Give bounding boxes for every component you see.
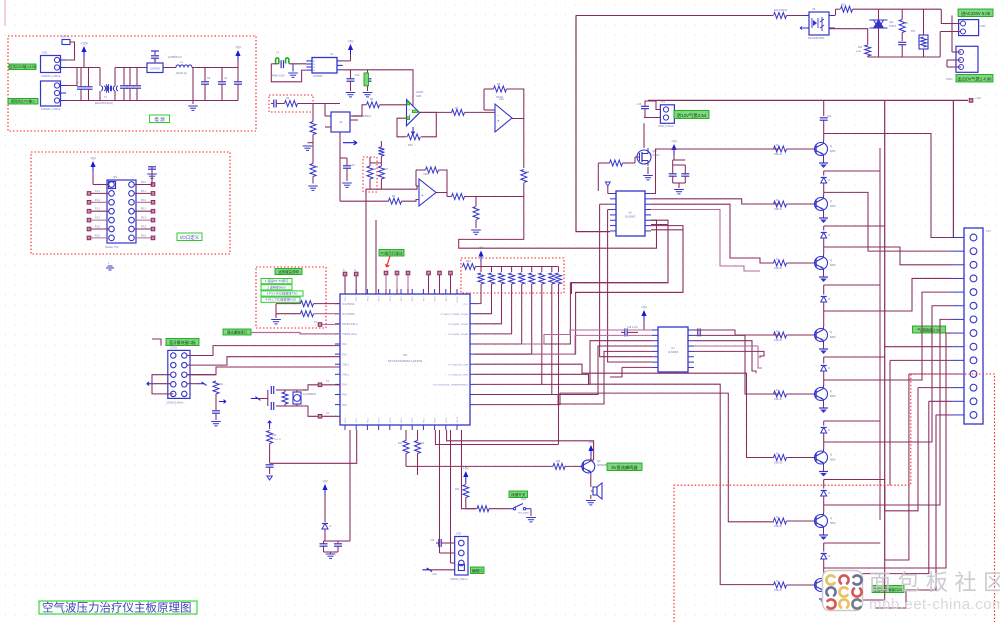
svg-text:P0.9: P0.9 xyxy=(446,296,448,301)
svg-text:R16: R16 xyxy=(372,169,377,171)
svg-text:SW1: SW1 xyxy=(521,498,527,501)
svg-text:气阀插座2.54: 气阀插座2.54 xyxy=(917,327,942,333)
svg-text:P2.6/PWM4: P2.6/PWM4 xyxy=(342,304,355,306)
svg-text:5V直流蜂鸣器: 5V直流蜂鸣器 xyxy=(611,464,638,471)
svg-text:CN6: CN6 xyxy=(980,25,985,28)
svg-text:CON2AC_5.08mm: CON2AC_5.08mm xyxy=(41,75,61,78)
svg-text:P3.5: P3.5 xyxy=(342,395,347,397)
svg-text:Q: Q xyxy=(830,199,832,203)
svg-text:R: R xyxy=(776,143,778,147)
svg-text:P1.6: P1.6 xyxy=(95,234,101,237)
svg-text:R: R xyxy=(776,515,778,519)
svg-text:2SB-1k: 2SB-1k xyxy=(774,398,783,401)
svg-text:P0.0: P0.0 xyxy=(141,181,147,184)
svg-text:+: + xyxy=(497,119,500,124)
svg-text:R: R xyxy=(776,198,778,202)
svg-text:+5V: +5V xyxy=(432,572,437,576)
svg-text:8050: 8050 xyxy=(830,522,836,525)
svg-text:P0.6: P0.6 xyxy=(412,296,414,301)
svg-text:编程口: 编程口 xyxy=(472,568,483,573)
svg-text:P0.7: P0.7 xyxy=(423,296,425,301)
svg-text:P0.4: P0.4 xyxy=(390,296,392,301)
svg-text:2SB-1k: 2SB-1k xyxy=(774,208,783,211)
svg-text:R21: R21 xyxy=(904,23,909,25)
svg-text:CON4A_2.54mm: CON4A_2.54mm xyxy=(450,578,468,581)
svg-text:P0.5: P0.5 xyxy=(401,296,403,301)
svg-text:+: + xyxy=(421,193,424,198)
svg-text:2SB-1k: 2SB-1k xyxy=(774,589,783,592)
svg-text:8050: 8050 xyxy=(830,395,836,398)
svg-text:U3: U3 xyxy=(339,120,343,124)
svg-text:2SB-1k: 2SB-1k xyxy=(774,339,783,342)
svg-text:R: R xyxy=(776,388,778,392)
svg-text:P0.2: P0.2 xyxy=(367,296,369,301)
svg-text:+5V: +5V xyxy=(322,480,329,484)
svg-text:P4.0: P4.0 xyxy=(345,417,347,422)
svg-text:P3.2: P3.2 xyxy=(342,344,347,346)
svg-text:R12: R12 xyxy=(272,434,277,437)
svg-text:+5V: +5V xyxy=(478,246,485,250)
svg-text:P3.4: P3.4 xyxy=(342,385,347,387)
svg-text:按键开关: 按键开关 xyxy=(511,492,526,497)
svg-text:P4.8: P4.8 xyxy=(435,417,437,422)
svg-text:U7: U7 xyxy=(671,346,675,350)
svg-text:+12V F1: +12V F1 xyxy=(60,36,70,39)
svg-text:R13: R13 xyxy=(398,443,403,445)
svg-text:P0.5: P0.5 xyxy=(141,226,147,229)
svg-text:P1.1: P1.1 xyxy=(464,304,469,306)
svg-text:R16: R16 xyxy=(455,489,460,491)
svg-text:P0.8: P0.8 xyxy=(435,296,437,301)
svg-text:U2D: U2D xyxy=(423,172,428,176)
svg-text:P4.9: P4.9 xyxy=(446,417,448,422)
svg-text:+5V: +5V xyxy=(641,306,648,310)
svg-text:P1.6/SS0/SS_1/SW: P1.6/SS0/SS_1/SW xyxy=(449,375,469,377)
svg-text:CON10-2.54mm: CON10-2.54mm xyxy=(166,402,183,405)
svg-text:C12: C12 xyxy=(350,164,355,167)
svg-text:2SB-1k: 2SB-1k xyxy=(774,525,783,528)
svg-text:保险丝后 RV输入: 保险丝后 RV输入 xyxy=(11,99,36,104)
svg-text:D: D xyxy=(828,297,830,301)
svg-text:P4.1: P4.1 xyxy=(356,417,358,422)
svg-text:P4.4: P4.4 xyxy=(390,417,392,422)
svg-text:P1.5: P1.5 xyxy=(95,226,101,229)
svg-text:4 P3.1 TXD接模块RXD: 4 P3.1 TXD接模块RXD xyxy=(265,297,297,302)
svg-text:D: D xyxy=(330,524,332,528)
svg-text:CON1: CON1 xyxy=(170,347,178,350)
svg-text:P1指示灯驱动: P1指示灯驱动 xyxy=(381,251,403,256)
svg-text:C15: C15 xyxy=(430,540,435,542)
svg-text:+5V: +5V xyxy=(671,140,678,144)
svg-text:ULN2803: ULN2803 xyxy=(668,351,679,354)
svg-text:R14: R14 xyxy=(420,443,425,445)
svg-text:+5V: +5V xyxy=(463,467,470,471)
svg-text:8050: 8050 xyxy=(830,205,836,208)
svg-text:+5V: +5V xyxy=(235,46,242,50)
svg-text:U5: U5 xyxy=(403,353,407,357)
svg-text:+5V: +5V xyxy=(90,157,97,161)
svg-text:Q: Q xyxy=(830,258,832,262)
svg-text:进AC220V 5.08: 进AC220V 5.08 xyxy=(961,10,991,17)
svg-text:1 连接RX TX即可: 1 连接RX TX即可 xyxy=(265,278,288,283)
svg-text:100uH-1A: 100uH-1A xyxy=(176,72,187,75)
svg-text:CON3: CON3 xyxy=(946,79,953,81)
svg-text:P0.3: P0.3 xyxy=(379,296,381,301)
svg-text:CON2_2.54mm: CON2_2.54mm xyxy=(658,126,674,128)
svg-text:P0.0: P0.0 xyxy=(345,296,347,301)
svg-text:出220V气泵1 4.96: 出220V气泵1 4.96 xyxy=(958,76,993,83)
svg-text:P1.1: P1.1 xyxy=(95,190,101,193)
svg-text:75-3G7: 75-3G7 xyxy=(652,155,660,157)
svg-text:P4.3: P4.3 xyxy=(379,417,381,422)
svg-text:P1.3: P1.3 xyxy=(95,208,101,211)
svg-text:D: D xyxy=(828,366,830,370)
svg-text:U2B: U2B xyxy=(416,94,421,98)
svg-text:mbb.eet-china.com: mbb.eet-china.com xyxy=(869,596,1000,613)
svg-text:XTAL2: XTAL2 xyxy=(342,363,350,366)
svg-text:EE10-B5V/9V(A): EE10-B5V/9V(A) xyxy=(95,102,113,105)
svg-text:MOC3061/3063: MOC3061/3063 xyxy=(808,38,825,40)
svg-text:P3.6: P3.6 xyxy=(342,405,347,407)
svg-text:R: R xyxy=(776,257,778,261)
svg-text:进12V气泵2.54: 进12V气泵2.54 xyxy=(677,112,707,119)
svg-text:空气波压力治疗仪主板原理图: 空气波压力治疗仪主板原理图 xyxy=(42,601,192,615)
svg-text:CON3AC_5.08mm: CON3AC_5.08mm xyxy=(41,108,61,111)
svg-text:2SB-1k: 2SB-1k xyxy=(774,267,783,270)
svg-text:P2.7/PWM5: P2.7/PWM5 xyxy=(342,314,355,316)
svg-text:LM358N: LM358N xyxy=(313,75,323,78)
svg-text:P1.3/RX2_1/PWM0_1/PWM: P1.3/RX2_1/PWM0_1/PWM xyxy=(441,314,469,316)
svg-text:Q: Q xyxy=(830,453,832,457)
svg-text:Q11: Q11 xyxy=(889,21,894,24)
svg-text:U2: U2 xyxy=(330,52,334,56)
svg-text:D: D xyxy=(828,554,830,558)
svg-text:JP1: JP1 xyxy=(113,175,118,179)
svg-text:蓝牙模块接口板: 蓝牙模块接口板 xyxy=(169,340,196,345)
svg-text:R: R xyxy=(776,329,778,333)
svg-text:D: D xyxy=(828,491,830,495)
svg-text:8050: 8050 xyxy=(830,336,836,339)
svg-text:C18 0.1uF: C18 0.1uF xyxy=(627,327,638,329)
svg-text:P4.7: P4.7 xyxy=(423,417,425,422)
svg-text:RP1: RP1 xyxy=(408,144,413,147)
svg-text:CN7: CN7 xyxy=(986,230,991,233)
svg-text:2SB-1k: 2SB-1k xyxy=(774,462,783,465)
svg-text:D: D xyxy=(828,178,830,182)
svg-text:Q10: Q10 xyxy=(652,150,657,153)
svg-text:11.0592MHz: 11.0592MHz xyxy=(303,394,317,396)
svg-text:R22: R22 xyxy=(841,4,846,7)
svg-text:P0.3: P0.3 xyxy=(141,208,147,211)
svg-text:R20 470R/1k: R20 470R/1k xyxy=(774,10,788,12)
svg-text:2SB-1k: 2SB-1k xyxy=(774,153,783,156)
svg-text:P0.6: P0.6 xyxy=(141,234,147,237)
svg-text:交流220V输入5.08: 交流220V输入5.08 xyxy=(9,64,36,69)
svg-text:CN1: CN1 xyxy=(42,51,48,55)
svg-text:+12V: +12V xyxy=(80,42,88,46)
svg-text:C16: C16 xyxy=(637,104,642,106)
svg-text:Header 7X2: Header 7X2 xyxy=(105,246,119,249)
svg-text:Q: Q xyxy=(830,144,832,148)
svg-text:RXD/P3.0/PL.0: RXD/P3.0/PL.0 xyxy=(342,324,358,326)
svg-text:I/O口定义: I/O口定义 xyxy=(180,234,200,241)
svg-text:R: R xyxy=(776,579,778,583)
svg-text:D: D xyxy=(828,428,830,432)
svg-text:ULN2803: ULN2803 xyxy=(625,216,636,219)
svg-text:P0.1: P0.1 xyxy=(141,190,147,193)
svg-text:LM7805: LM7805 xyxy=(150,67,160,71)
svg-text:P0.1: P0.1 xyxy=(356,296,358,301)
svg-text:470R: 470R xyxy=(856,51,862,53)
svg-text:R11: R11 xyxy=(219,383,224,386)
svg-text:KEY-KAN4: KEY-KAN4 xyxy=(518,512,529,515)
svg-text:8050: 8050 xyxy=(830,459,836,462)
svg-text:面包板社区: 面包板社区 xyxy=(869,570,1000,595)
svg-text:D: D xyxy=(828,233,830,237)
svg-text:C10: C10 xyxy=(355,74,360,77)
svg-text:RV1: RV1 xyxy=(911,31,916,33)
svg-text:P0.4: P0.4 xyxy=(141,217,147,220)
svg-text:P1.2: P1.2 xyxy=(95,199,101,202)
svg-text:P1.4: P1.4 xyxy=(95,217,101,220)
svg-text:P4.6: P4.6 xyxy=(412,417,414,422)
svg-text:C20: C20 xyxy=(827,116,832,118)
svg-text:4MHz-3216: 4MHz-3216 xyxy=(272,75,285,78)
svg-text:CN5: CN5 xyxy=(456,533,462,536)
svg-text:R17: R17 xyxy=(384,169,389,171)
svg-text:8050: 8050 xyxy=(830,150,836,153)
svg-text:LM324: LM324 xyxy=(416,91,424,94)
svg-text:P1.7/SS/SS0/SS_1/PWM3/PWM5.2: P1.7/SS/SS0/SS_1/PWM3/PWM5.2 xyxy=(433,385,469,387)
svg-text:U6: U6 xyxy=(628,211,632,215)
svg-text:STC12C5A60S2-LQFP44: STC12C5A60S2-LQFP44 xyxy=(388,359,423,363)
svg-text:R10: R10 xyxy=(466,260,471,263)
svg-text:P1.7/SS1/SS_1/SW: P1.7/SS1/SS_1/SW xyxy=(449,364,469,366)
svg-text:LM7805-5.0: LM7805-5.0 xyxy=(168,55,182,59)
svg-text:P1.5/PWM2_1/PWM: P1.5/PWM2_1/PWM xyxy=(448,334,468,336)
svg-text:P0.10: P0.10 xyxy=(457,296,459,302)
svg-text:P0.2: P0.2 xyxy=(141,199,147,202)
svg-text:3 P3.0 RXD接模块TXD: 3 P3.0 RXD接模块TXD xyxy=(267,291,299,296)
svg-text:运放增益说明: 运放增益说明 xyxy=(278,269,299,274)
svg-text:XTAL1: XTAL1 xyxy=(342,374,350,377)
svg-text:电 源: 电 源 xyxy=(154,116,165,123)
svg-text:8050: 8050 xyxy=(830,264,836,267)
svg-text:P3.3: P3.3 xyxy=(342,354,347,356)
svg-text:Q: Q xyxy=(830,389,832,393)
svg-text:R23: R23 xyxy=(858,47,863,49)
svg-text:2 波特率9600: 2 波特率9600 xyxy=(267,284,286,289)
svg-text:Q: Q xyxy=(830,516,832,520)
svg-text:+12V: +12V xyxy=(975,96,981,100)
svg-text:Q: Q xyxy=(830,330,832,334)
svg-text:调试通信接口: 调试通信接口 xyxy=(227,330,247,335)
svg-text:4.7k/5.1k: 4.7k/5.1k xyxy=(272,439,282,441)
svg-text:LM324: LM324 xyxy=(496,97,504,99)
svg-text:BTA16: BTA16 xyxy=(889,25,897,28)
svg-text:P4.10: P4.10 xyxy=(457,416,459,422)
svg-text:R: R xyxy=(776,452,778,456)
svg-text:+5V: +5V xyxy=(348,40,355,44)
svg-text:P1.4/PWM1_1/PWM: P1.4/PWM1_1/PWM xyxy=(448,324,468,326)
svg-text:P4.5: P4.5 xyxy=(401,417,403,422)
svg-text:R15: R15 xyxy=(556,461,561,463)
svg-text:TXD/P3.1/PL.1: TXD/P3.1/PL.1 xyxy=(342,334,358,336)
svg-text:P4.2: P4.2 xyxy=(367,417,369,422)
